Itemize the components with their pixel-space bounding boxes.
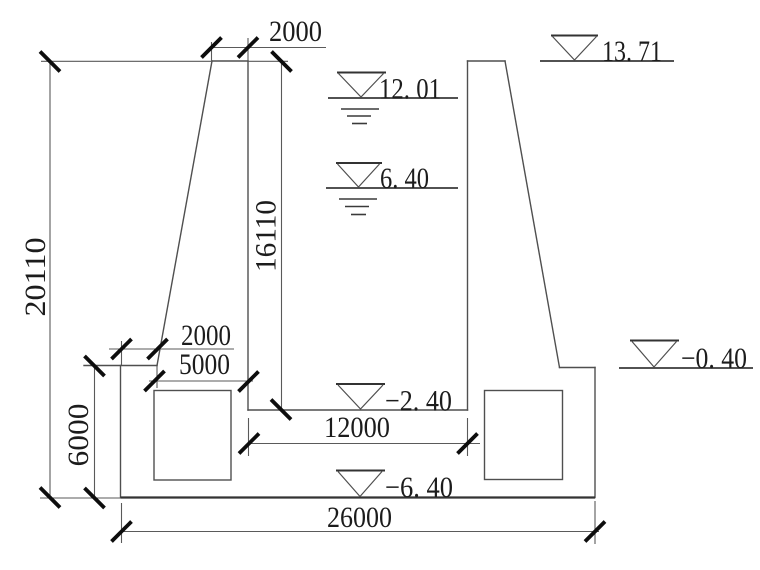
tick <box>85 488 105 508</box>
26000 extension verticals <box>121 503 123 543</box>
dimension top 2000 <box>202 15 327 58</box>
left base outer edge <box>120 366 122 498</box>
tick <box>112 522 132 542</box>
left wall inner face <box>247 61 249 410</box>
svg-text:13. 71: 13. 71 <box>602 35 662 68</box>
tick <box>458 434 478 454</box>
dimension 6000 <box>62 356 105 508</box>
svg-text:2000: 2000 <box>269 15 322 48</box>
svg-text:12. 01: 12. 01 <box>379 73 441 106</box>
top extension line at wall crest level <box>41 60 212 62</box>
water marks <box>341 108 379 110</box>
tick <box>239 434 259 454</box>
svg-text:6000: 6000 <box>62 404 95 467</box>
bottom-left extension of slab bottom <box>40 497 121 499</box>
right footing block <box>485 391 563 480</box>
svg-text:−2. 40: −2. 40 <box>385 385 452 418</box>
svg-text:12000: 12000 <box>324 411 390 444</box>
left footing block <box>154 391 231 481</box>
level mark -0.40 <box>619 341 753 376</box>
lower 2000 extension vertical at base corner <box>121 341 123 365</box>
tick <box>40 488 60 508</box>
right base step top <box>560 367 596 369</box>
level mark 13.71 <box>540 35 674 68</box>
level mark 12.01 (water) <box>328 73 458 124</box>
tick <box>272 52 292 72</box>
tick <box>271 400 291 420</box>
svg-text:5000: 5000 <box>179 348 230 381</box>
right base outer edge <box>594 368 596 498</box>
dimension 26000 <box>112 501 606 542</box>
svg-text:26000: 26000 <box>327 501 392 534</box>
dimension 16110 <box>250 52 292 420</box>
left wall top edge <box>212 60 248 62</box>
tick <box>202 38 222 58</box>
svg-text:6. 40: 6. 40 <box>380 162 429 195</box>
svg-text:−0. 40: −0. 40 <box>681 342 747 375</box>
chamber floor <box>248 409 468 411</box>
tick <box>238 38 258 58</box>
tick <box>40 52 60 72</box>
tick <box>239 372 259 392</box>
svg-text:−6. 40: −6. 40 <box>385 471 453 504</box>
dimension 5000 <box>145 348 259 392</box>
right wall inner face <box>467 61 469 410</box>
structure outline: dock chamber cross-section <box>84 61 595 498</box>
level mark -6.40 <box>336 471 453 505</box>
tick <box>585 522 605 542</box>
dimension lower 2000 <box>109 319 234 359</box>
svg-text:20110: 20110 <box>19 238 52 317</box>
dimension 20110 <box>19 52 60 508</box>
tick <box>148 339 168 359</box>
level mark -2.40 <box>336 384 452 418</box>
tick <box>145 371 165 391</box>
left wall outer battered face <box>157 61 212 366</box>
base slab bottom <box>121 496 596 498</box>
svg-text:16110: 16110 <box>250 200 283 272</box>
5000 extension vertical at wall toe <box>156 366 158 388</box>
level mark 6.40 (water) <box>326 162 458 215</box>
water marks <box>339 198 377 200</box>
right wall outer battered face <box>505 61 560 368</box>
12000 extension verticals <box>248 418 250 456</box>
top 2000 extension verticals <box>211 42 213 61</box>
dimension 12000 <box>239 411 480 454</box>
tick <box>85 356 105 376</box>
tick <box>112 339 132 359</box>
extension lines <box>40 38 595 544</box>
left base step top <box>84 365 157 367</box>
right wall top edge <box>468 60 506 62</box>
